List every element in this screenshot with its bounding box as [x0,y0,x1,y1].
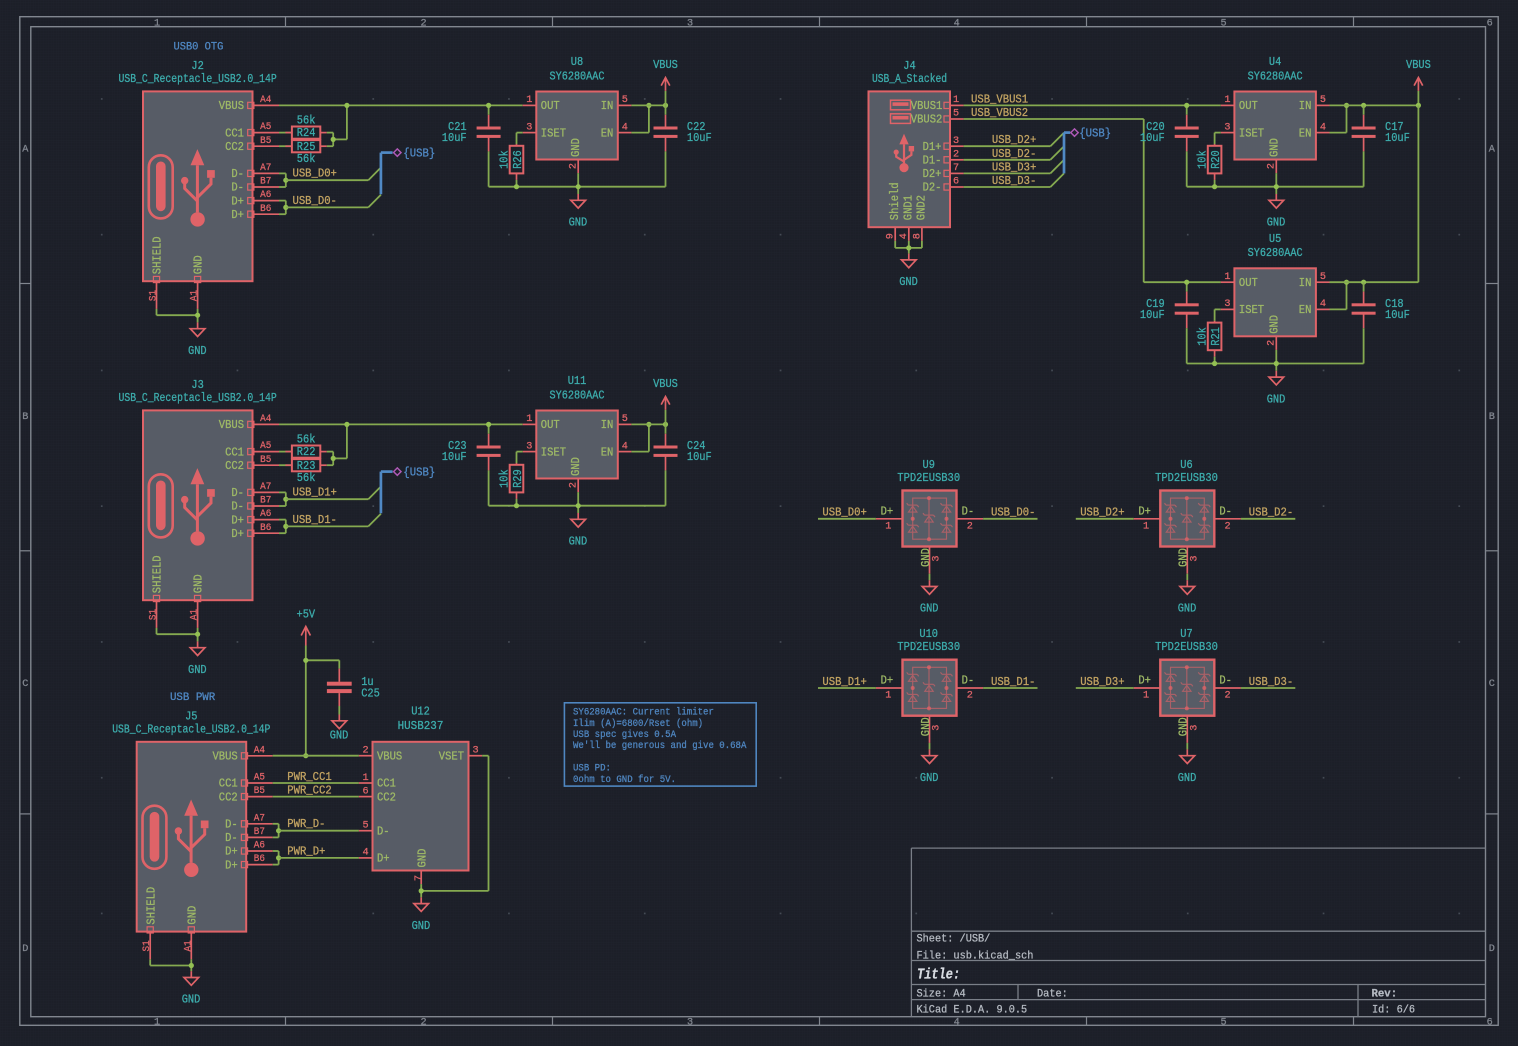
bus {USB} netclass J3 [381,465,435,513]
IC U12 pin 4 (D+) [359,848,390,866]
svg-text:5: 5 [622,414,628,425]
junction J5 D- mid [276,828,281,833]
junction R26 rail [514,184,519,189]
wire U6 gnd [1186,574,1188,581]
svg-text:B6: B6 [260,523,271,534]
IC U8 pin 3 (ISET) [523,122,566,140]
svg-text:GND: GND [569,457,583,476]
wire R22/R23 right side join [327,424,347,465]
svg-text:SY6280AAC: SY6280AAC [1248,246,1303,260]
svg-text:OUT: OUT [541,418,560,432]
junction D- mid [283,178,288,183]
ground symbol below C25 [338,715,340,721]
wire J5 CC1 to U12 CC1 (PWR_CC1) [273,782,359,784]
wire J5 VBUS to U12 VBUS [273,755,359,757]
svg-text:3: 3 [526,122,532,133]
IC U12 pin 3 (VSET) [439,746,482,764]
IC U4 pin 2 (GND) [1267,138,1282,173]
svg-text:D-: D- [1219,505,1232,519]
svg-text:D-: D- [225,831,238,845]
wire C25 to gnd [338,706,340,715]
svg-text:EN: EN [1299,126,1312,140]
svg-text:A: A [1489,145,1496,156]
connector J5 pin B5 (CC2) [219,786,273,804]
svg-text:VBUS: VBUS [1406,58,1431,72]
ground symbol below U6 [1186,580,1188,586]
wire net USB_D2+ [1076,518,1134,520]
svg-text:4: 4 [362,848,368,859]
ground symbol below U10 [929,749,931,755]
junction D+ mid J3 [283,524,288,529]
svg-text:J5: J5 [185,710,197,724]
svg-text:USB PD:: USB PD: [573,763,611,775]
connector J4 USB trident icon [894,134,915,173]
svg-text:1: 1 [154,18,160,29]
connector J3 pin A6 (D+) [231,509,279,527]
svg-text:Date:: Date: [1037,989,1068,1001]
ground symbol below J5 [190,971,192,977]
svg-text:USB_D0+: USB_D0+ [293,166,337,180]
svg-text:TPD2EUSB30: TPD2EUSB30 [1155,471,1218,485]
svg-text:6: 6 [362,786,368,797]
IC U9 pin 3 (GND) [919,547,943,574]
wire U10 gnd [929,743,931,750]
svg-text:2: 2 [1267,163,1278,169]
svg-text:USB_C_Receptacle_USB2.0_14P: USB_C_Receptacle_USB2.0_14P [112,722,270,736]
wire U8 GND pin to rail [577,173,579,194]
wire J2 CC1 to R24 [279,132,292,134]
connector J2 pin A5 (CC1) [225,122,279,140]
wire U9 gnd [929,574,931,581]
wire U5 ISET to R21 [1215,309,1221,321]
IC U4 pin 3 (ISET) [1221,122,1264,140]
svg-text:A1: A1 [183,940,194,951]
svg-text:5: 5 [622,95,628,106]
junction J5 D+ mid [276,855,281,860]
connector J2 pin B6 (D+) [231,204,279,222]
svg-text:A7: A7 [260,482,271,493]
svg-text:2: 2 [1225,521,1231,532]
connector J2 USB trident icon [181,149,215,226]
wire +5V vertical to J5 VBUS row [305,660,307,755]
svg-text:3: 3 [932,725,943,731]
svg-text:D+: D+ [881,505,894,519]
svg-text:B7: B7 [254,827,265,838]
svg-text:3: 3 [1224,122,1230,133]
svg-text:1: 1 [362,773,368,784]
junction on VBUS wire [344,103,349,108]
svg-text:D-: D- [377,824,390,838]
svg-text:C: C [1489,679,1495,690]
wire J5 D+ pair join [273,851,279,865]
IC U8 pin 2 (GND) [568,138,583,173]
svg-text:U8: U8 [571,55,583,69]
capacitor C18 10uF [1352,282,1410,363]
svg-text:VBUS: VBUS [653,58,678,72]
note text box (SY6280AAC current limiter note) [564,703,756,786]
svg-text:B7: B7 [260,177,271,188]
svg-text:D2+: D2+ [923,167,942,181]
junction J4 gnd [906,245,911,250]
svg-text:B: B [22,412,28,423]
svg-text:CC2: CC2 [225,459,244,473]
svg-text:SHIELD: SHIELD [151,236,165,274]
wire J2 D- pair join [279,173,286,187]
svg-text:U12: U12 [411,704,430,718]
gnd rail U8 [489,186,666,188]
power symbol +5V [297,607,316,660]
svg-text:USB_D2+: USB_D2+ [992,133,1036,147]
wire U8 IN to VBUS [631,104,665,106]
junction +5V VBUS [303,753,308,758]
svg-text:U4: U4 [1269,55,1281,69]
svg-text:Id: 6/6: Id: 6/6 [1372,1005,1415,1017]
connector J5 body [137,742,247,932]
svg-text:2: 2 [420,1018,426,1029]
capacitor C25 1u [327,669,380,706]
svg-text:USB_C_Receptacle_USB2.0_14P: USB_C_Receptacle_USB2.0_14P [119,391,277,405]
IC U10 body [903,660,957,716]
connector J3 body [143,410,253,600]
resistor R22 56k [292,446,320,458]
svg-text:1: 1 [1224,95,1230,106]
IC U5 body [1234,268,1316,336]
junction R29 rail [514,503,519,508]
junction J3 gnd [195,632,200,637]
IC U12 pin 1 (CC1) [359,773,396,791]
wire +5V to C25 [306,660,340,668]
svg-text:10k: 10k [497,150,511,169]
wire net PWR_D- [279,830,359,832]
svg-text:U10: U10 [919,627,938,641]
wire J5 D- pair join [273,824,279,838]
junction U5 EN join [1344,280,1349,285]
IC U8 pin 5 (IN) [601,95,632,113]
svg-text:SY6280AAC: SY6280AAC [550,69,605,83]
svg-text:A4: A4 [254,745,265,756]
wire J2 VBUS to U8 OUT [279,104,523,106]
IC U12 pin 7 (GND) [414,849,429,885]
svg-text:+5V: +5V [297,607,316,621]
junction +5V C25 tee [303,658,308,663]
junction U5 gnd rail [1274,361,1279,366]
svg-text:D1-: D1- [923,154,942,168]
connector J3 pin A5 (CC1) [225,441,279,459]
svg-text:10uF: 10uF [687,131,712,145]
wire net USB_D3- [964,173,1064,187]
svg-text:U5: U5 [1269,232,1281,246]
svg-text:USB PWR: USB PWR [170,692,215,704]
svg-text:SY6280AAC: SY6280AAC [1248,69,1303,83]
svg-text:10k: 10k [1196,150,1210,169]
IC U6 pin 3 (GND) [1177,547,1201,574]
wire J3 D- pair join [279,492,286,506]
connector J4 port icon 2 [891,114,911,124]
svg-text:CC2: CC2 [225,140,244,154]
svg-text:GND: GND [899,275,918,289]
svg-text:GND: GND [1267,315,1281,334]
wire net USB_D3+ [964,160,1064,174]
svg-text:File: usb.kicad_sch: File: usb.kicad_sch [917,951,1034,963]
svg-text:USB_D2-: USB_D2- [992,147,1036,161]
svg-text:USB_D1-: USB_D1- [293,513,337,527]
svg-text:GND: GND [188,663,207,677]
IC U7 pin 2 (D-) [1214,674,1241,702]
svg-text:Sheet: /USB/: Sheet: /USB/ [917,934,991,946]
svg-text:B7: B7 [260,496,271,507]
junction J5 gnd [189,963,194,968]
svg-text:PWR_CC1: PWR_CC1 [287,770,331,784]
connector J5 pin B6 (D+) [225,854,273,872]
connector J2 pin A4 (VBUS) [219,95,279,113]
svg-text:2: 2 [420,18,426,29]
wire R21 to gnd rail [1214,357,1216,364]
svg-text:USB_D0-: USB_D0- [991,506,1035,520]
IC U10 pin 3 (GND) [919,716,943,743]
wire U4 GND pin to rail [1275,173,1277,194]
wire net USB_D1- [983,687,1037,689]
svg-text:GND: GND [182,993,201,1007]
svg-text:1: 1 [526,95,532,106]
IC U12 body [373,742,469,871]
svg-text:TPD2EUSB30: TPD2EUSB30 [897,640,960,654]
ground symbol below J2 [197,322,199,328]
IC U5 pin 4 (EN) [1299,299,1330,317]
svg-text:D-: D- [225,818,238,832]
svg-text:USB_D1-: USB_D1- [991,675,1035,689]
svg-text:Size: A4: Size: A4 [917,989,967,1001]
capacitor C22 10uF [654,105,712,186]
wire U12 GND pin down [420,884,422,897]
junction C19 top [1184,280,1189,285]
svg-text:CC1: CC1 [219,777,238,791]
svg-text:1: 1 [953,95,959,106]
svg-text:OUT: OUT [1239,99,1258,113]
svg-text:A5: A5 [254,773,265,784]
svg-text:USB_VBUS2: USB_VBUS2 [971,106,1028,120]
svg-text:3: 3 [1189,555,1200,561]
svg-text:B5: B5 [260,136,271,147]
IC U8 body [536,92,618,160]
svg-text:GND: GND [185,906,199,925]
gnd rail U11 [489,505,666,507]
svg-text:GND: GND [412,919,431,933]
svg-text:VSET: VSET [439,749,464,763]
wire U8 ISET to R26 [517,133,523,145]
wire net USB_D2- [1241,518,1295,520]
svg-text:PWR_D-: PWR_D- [287,817,325,831]
IC U9 body [903,491,957,547]
junction CC join [331,137,336,142]
svg-text:GND: GND [330,729,349,743]
svg-text:USB_D2-: USB_D2- [1249,506,1293,520]
junction U4 gnd rail [1274,184,1279,189]
svg-text:6: 6 [1487,1018,1493,1029]
svg-text:3: 3 [1189,725,1200,731]
title block [911,848,1485,1017]
connector J4 pin 1 (VBUS1) [911,95,964,113]
svg-text:2: 2 [362,746,368,757]
capacitor C19 10uF [1140,282,1199,363]
svg-text:B6: B6 [254,854,265,865]
wire U11 GND pin to rail [577,492,579,513]
svg-text:B6: B6 [260,204,271,215]
svg-text:TPD2EUSB30: TPD2EUSB30 [1155,640,1218,654]
bus {USB} netclass J2 [381,146,435,194]
svg-text:PWR_D+: PWR_D+ [287,844,325,858]
svg-text:1: 1 [1143,521,1149,532]
IC U12 pin 2 (VBUS) [359,746,402,764]
ground symbol below U9 [929,580,931,586]
svg-text:R21: R21 [1209,327,1223,346]
connector J3 pin A1 (GND) [190,574,206,628]
svg-text:5: 5 [1320,95,1326,106]
connector J3 pin B6 (D+) [231,523,279,541]
connector J2 pin A1 (GND) [190,255,206,309]
svg-text:C: C [22,679,28,690]
IC U8 pin 4 (EN) [601,122,632,140]
wire net USB_D3- [1241,687,1295,689]
IC U9 internal diode array [907,498,953,539]
resistor R29 10k [510,465,524,493]
svg-text:SY6280AAC: Current limiter: SY6280AAC: Current limiter [573,707,714,719]
resistor R23 56k [292,459,320,471]
svg-text:S1: S1 [149,609,160,620]
svg-text:R26: R26 [511,150,525,169]
svg-text:IN: IN [601,418,614,432]
ground symbol below U12 [420,897,422,903]
svg-text:USB_D2+: USB_D2+ [1080,506,1124,520]
svg-text:4: 4 [622,441,628,452]
svg-text:D+: D+ [231,513,244,527]
svg-text:A1: A1 [190,290,201,301]
svg-text:{USB}: {USB} [403,146,435,160]
svg-text:4: 4 [1320,122,1326,133]
IC U7 pin 3 (GND) [1177,716,1201,743]
wire U11 ISET to R29 [517,452,523,464]
svg-text:10uF: 10uF [442,131,467,145]
svg-text:S1: S1 [149,290,160,301]
svg-text:A5: A5 [260,122,271,133]
IC U12 pin 6 (CC2) [359,786,396,804]
svg-text:VBUS: VBUS [219,418,244,432]
capacitor C23 10uF [442,424,501,505]
svg-text:10k: 10k [1196,327,1210,346]
svg-text:1: 1 [154,1018,160,1029]
junction U8 gnd rail [576,184,581,189]
svg-text:SY6280AAC: SY6280AAC [550,388,605,402]
svg-text:A7: A7 [260,163,271,174]
svg-text:USB_D3-: USB_D3- [1249,675,1293,689]
capacitor C17 10uF [1352,105,1410,186]
svg-text:D+: D+ [881,674,894,688]
svg-text:3: 3 [953,136,959,147]
svg-text:VBUS: VBUS [213,750,238,764]
IC U5 pin 5 (IN) [1299,272,1330,290]
svg-text:GND: GND [1267,138,1281,157]
svg-text:6: 6 [1487,18,1493,29]
svg-text:OUT: OUT [1239,276,1258,290]
wire U5 EN to IN [1330,282,1347,309]
svg-text:Title:: Title: [917,968,960,984]
svg-text:GND: GND [192,255,206,274]
ground symbol below J3 [197,641,199,647]
svg-text:VBUS1: VBUS1 [911,99,943,113]
svg-text:2: 2 [1267,340,1278,346]
svg-text:ISET: ISET [541,445,566,459]
connector J5 pin B7 (D-) [225,827,273,845]
connector J5 USB-C port icon [143,806,167,869]
svg-text:ISET: ISET [1239,126,1264,140]
IC U11 pin 2 (GND) [568,457,583,492]
connector J4 pin 6 (D2-) [923,177,964,195]
wire net USB_D2+ [964,133,1064,147]
svg-text:HUSB237: HUSB237 [398,719,444,733]
IC U6 internal diode array [1165,498,1211,539]
svg-text:D+: D+ [1138,674,1151,688]
svg-text:VBUS: VBUS [653,377,678,391]
connector J5 pin S1 (SHIELD) [142,887,158,960]
svg-text:D+: D+ [377,852,390,866]
svg-text:2: 2 [568,482,579,488]
svg-text:TPD2EUSB30: TPD2EUSB30 [897,471,960,485]
svg-text:1: 1 [885,521,891,532]
svg-text:GND: GND [569,216,588,230]
svg-text:1: 1 [885,691,891,702]
connector J3 USB-C port icon [149,474,173,537]
wire U8 EN to IN [631,105,649,132]
IC U6 body [1160,491,1214,547]
svg-text:10uF: 10uF [1140,131,1165,145]
svg-text:S1: S1 [142,940,153,951]
wire U7 gnd [1186,743,1188,750]
svg-text:A6: A6 [254,841,265,852]
svg-text:1: 1 [1224,272,1230,283]
svg-text:2: 2 [953,149,959,160]
svg-text:7: 7 [414,875,425,881]
wire net USB_D1+ [286,487,381,500]
junction VBUS C22 [663,103,668,108]
svg-text:We'll be generous and give 0.6: We'll be generous and give 0.68A [573,740,747,752]
svg-text:GND2: GND2 [915,195,929,220]
svg-text:56k: 56k [297,471,316,485]
svg-text:GND: GND [192,574,206,593]
resistor R26 10k [510,146,524,174]
svg-text:VBUS2: VBUS2 [911,113,943,127]
ground symbol below U11 [577,513,579,519]
svg-text:A6: A6 [260,190,271,201]
svg-text:10uF: 10uF [1140,308,1165,322]
wire net USB_D0- [286,195,381,208]
svg-text:4: 4 [1320,299,1326,310]
capacitor C21 10uF [442,105,501,186]
connector J4 pin 3 (D1+) [923,136,964,154]
svg-text:Ilim (A)=6800/Rset (ohm): Ilim (A)=6800/Rset (ohm) [573,718,703,730]
IC U4 pin 4 (EN) [1299,122,1330,140]
junction U4 EN join [1344,103,1349,108]
svg-text:Rev:: Rev: [1372,989,1398,1001]
svg-text:U6: U6 [1180,458,1192,472]
ground symbol below U7 [1186,749,1188,755]
svg-text:2: 2 [967,521,973,532]
junction C17 top [1361,103,1366,108]
svg-text:D-: D- [231,181,244,195]
svg-text:D-: D- [231,167,244,181]
IC U5 pin 2 (GND) [1267,315,1282,350]
svg-text:9: 9 [886,233,897,239]
junction R21 rail [1212,361,1217,366]
svg-text:10uF: 10uF [687,450,712,464]
